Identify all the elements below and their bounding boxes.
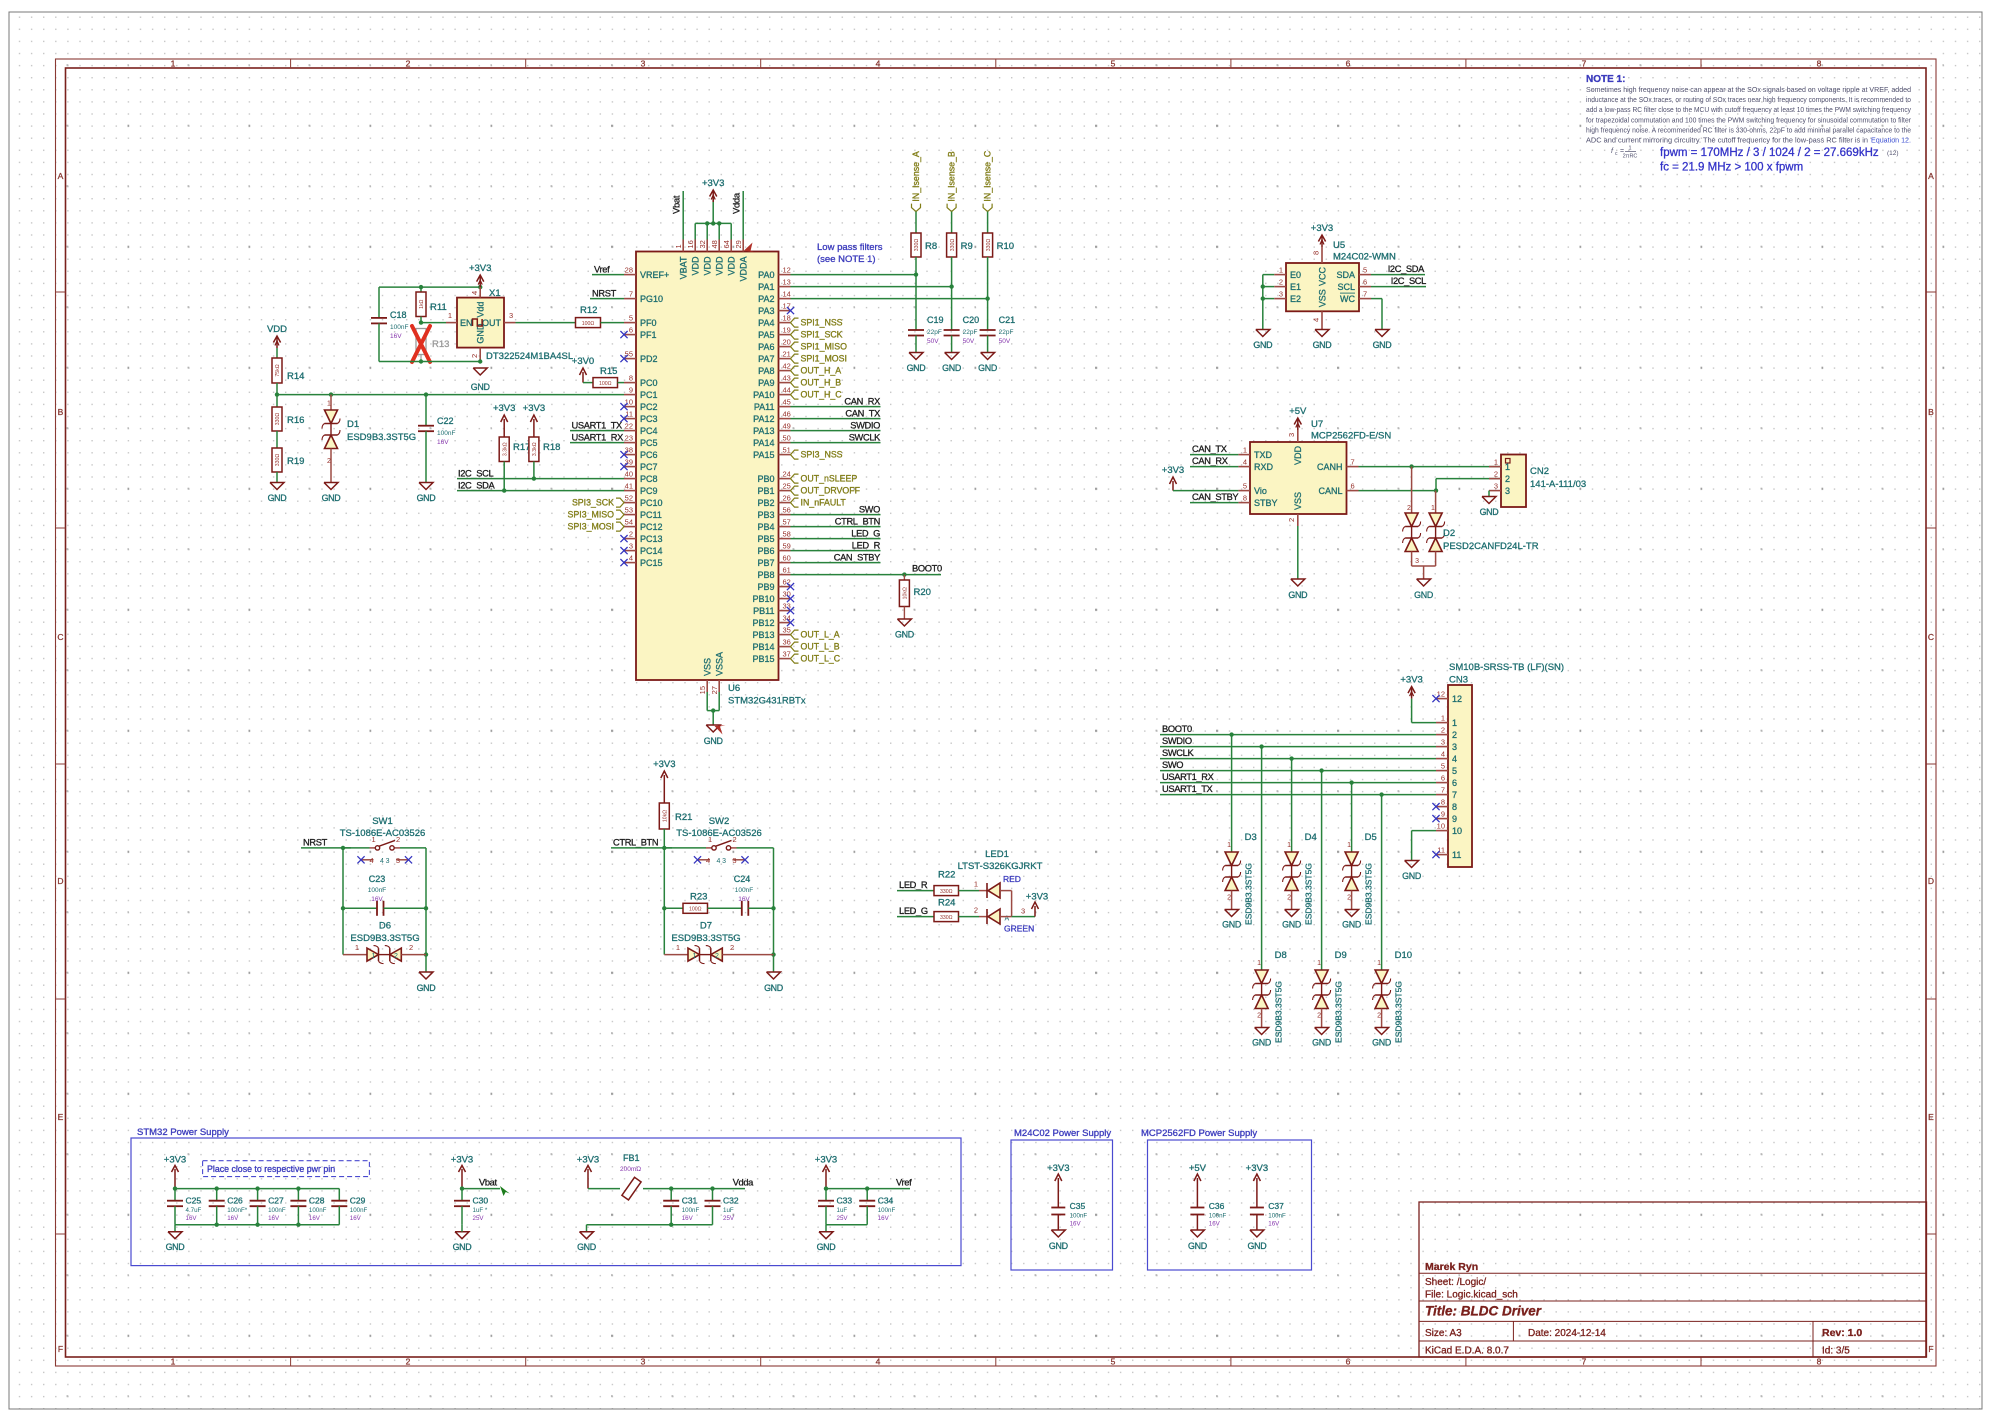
svg-text:STBY: STBY bbox=[1254, 498, 1278, 508]
svg-text:GND: GND bbox=[817, 1242, 836, 1252]
svg-text:3: 3 bbox=[641, 1357, 646, 1367]
net label Vdda bbox=[732, 192, 743, 214]
X1 pin 1 EN bbox=[446, 311, 473, 328]
svg-text:PB10: PB10 bbox=[752, 594, 774, 604]
svg-text:C30: C30 bbox=[473, 1196, 489, 1206]
svg-text:PA5: PA5 bbox=[758, 330, 774, 340]
svg-text:PB8: PB8 bbox=[757, 570, 774, 580]
wire SW1 right vertical bbox=[424, 848, 428, 972]
svg-text:4: 4 bbox=[380, 858, 384, 865]
svg-text:USART1_RX: USART1_RX bbox=[1162, 772, 1214, 782]
wire PA1 to R9 and C20 bbox=[791, 257, 954, 330]
title block size bbox=[1425, 1328, 1462, 1339]
svg-text:Title: BLDC Driver: Title: BLDC Driver bbox=[1425, 1304, 1542, 1319]
svg-text:LTST-S326KGJRKT: LTST-S326KGJRKT bbox=[958, 861, 1043, 872]
svg-text:SPI1_MOSI: SPI1_MOSI bbox=[801, 354, 847, 364]
svg-text:7: 7 bbox=[1351, 458, 1355, 467]
capacitor C18 bbox=[371, 287, 408, 361]
local label LED_G bbox=[897, 906, 934, 916]
svg-text:11: 11 bbox=[625, 410, 633, 419]
M24C02 power supply title bbox=[1014, 1128, 1111, 1139]
svg-text:FB1: FB1 bbox=[623, 1153, 640, 1163]
svg-text:LED_R: LED_R bbox=[852, 541, 881, 551]
svg-text:SPI3_SCK: SPI3_SCK bbox=[572, 498, 614, 508]
svg-text:ESD9B3.3ST5G: ESD9B3.3ST5G bbox=[350, 933, 419, 944]
hier label OUT_H_B bbox=[791, 378, 842, 388]
power symbol VDD bbox=[267, 324, 287, 358]
svg-text:+3V3: +3V3 bbox=[577, 1155, 599, 1166]
svg-text:GND: GND bbox=[417, 493, 436, 503]
svg-text:2: 2 bbox=[1441, 726, 1445, 735]
svg-text:41: 41 bbox=[625, 482, 633, 491]
svg-text:TS-1086E-AC03526: TS-1086E-AC03526 bbox=[340, 828, 426, 839]
svg-text:2: 2 bbox=[629, 530, 633, 539]
svg-text:LED_G: LED_G bbox=[851, 529, 880, 539]
ground symbol below R20 bbox=[895, 619, 914, 640]
svg-text:13: 13 bbox=[783, 278, 791, 287]
local label NRST at SW1 bbox=[301, 837, 351, 850]
svg-text:2: 2 bbox=[1407, 505, 1411, 512]
U5 pin 8 VCC bbox=[1312, 247, 1328, 286]
svg-text:ESD9B3.3ST5G: ESD9B3.3ST5G bbox=[347, 432, 416, 443]
svg-text:(see NOTE 1): (see NOTE 1) bbox=[817, 254, 876, 265]
CN2 reference and value bbox=[1530, 466, 1586, 490]
svg-text:SPI3_NSS: SPI3_NSS bbox=[801, 450, 843, 460]
title block file bbox=[1425, 1290, 1518, 1301]
svg-text:CAN_RX: CAN_RX bbox=[844, 397, 880, 407]
svg-text:+3V3: +3V3 bbox=[164, 1155, 186, 1166]
svg-text:100nF: 100nF bbox=[1209, 1213, 1227, 1220]
ground symbol below D1 bbox=[322, 483, 341, 504]
ground symbol below E pins bbox=[1253, 330, 1272, 351]
svg-text:SPI3_MOSI: SPI3_MOSI bbox=[568, 522, 614, 532]
svg-text:3: 3 bbox=[732, 856, 736, 865]
svg-text:21: 21 bbox=[783, 350, 791, 359]
svg-text:R19: R19 bbox=[287, 456, 304, 467]
svg-text:GND: GND bbox=[453, 1242, 472, 1252]
svg-text:PA15: PA15 bbox=[753, 450, 774, 460]
svg-text:PC6: PC6 bbox=[640, 450, 658, 460]
svg-text:D1: D1 bbox=[347, 419, 359, 430]
svg-text:Sometimes high frequency no: Sometimes high frequency noise can appea… bbox=[1586, 85, 1911, 94]
title block kicad version bbox=[1425, 1346, 1509, 1357]
svg-text:ESD9B3.3ST5G: ESD9B3.3ST5G bbox=[1334, 981, 1344, 1043]
svg-text:4: 4 bbox=[706, 856, 710, 865]
svg-text:PA0: PA0 bbox=[758, 270, 774, 280]
svg-text:SCL: SCL bbox=[1337, 282, 1355, 292]
svg-text:5: 5 bbox=[1243, 482, 1247, 491]
U7 left pins TXD RXD Vio STBY bbox=[1238, 446, 1277, 508]
power symbol +3V3 at R17 bbox=[493, 403, 515, 437]
svg-text:GND: GND bbox=[1402, 871, 1421, 881]
svg-text:I2C_SCL: I2C_SCL bbox=[458, 469, 493, 479]
svg-text:75kΩ: 75kΩ bbox=[275, 364, 281, 376]
svg-text:PA13: PA13 bbox=[753, 426, 774, 436]
svg-text:R16: R16 bbox=[287, 415, 304, 426]
svg-text:330Ω: 330Ω bbox=[940, 915, 953, 921]
svg-text:3: 3 bbox=[396, 856, 400, 865]
ground symbol below C33 bbox=[817, 1232, 836, 1252]
svg-text:1: 1 bbox=[1505, 462, 1510, 472]
LED1 red element bbox=[974, 880, 1012, 898]
local label BOOT0 bbox=[912, 564, 942, 574]
title block sheet bbox=[1425, 1277, 1486, 1288]
svg-text:2: 2 bbox=[1494, 470, 1498, 479]
svg-text:2: 2 bbox=[406, 1357, 411, 1367]
switch SW2 TS-1086E-AC03526 bbox=[664, 835, 773, 865]
svg-text:RED: RED bbox=[1003, 874, 1021, 884]
ground symbol below D4 bbox=[1282, 910, 1301, 930]
wire PA2 to R10 and C21 bbox=[791, 257, 990, 330]
svg-text:14: 14 bbox=[783, 290, 791, 299]
note small formula bbox=[1611, 146, 1637, 160]
svg-text:60: 60 bbox=[783, 554, 791, 563]
svg-text:C36: C36 bbox=[1209, 1201, 1225, 1211]
svg-text:54: 54 bbox=[625, 518, 633, 527]
svg-text:24: 24 bbox=[783, 470, 791, 479]
svg-text:+5V: +5V bbox=[1189, 1163, 1207, 1174]
svg-text:2: 2 bbox=[327, 458, 331, 465]
U6 top power pins VBAT VDD VDDA bbox=[674, 240, 748, 282]
ground symbol below U6 bbox=[704, 725, 723, 746]
svg-text:E1: E1 bbox=[1290, 282, 1301, 292]
local label CAN_TX at U7 bbox=[1190, 444, 1238, 455]
svg-text:Vdda: Vdda bbox=[732, 192, 743, 214]
svg-text:PB15: PB15 bbox=[752, 654, 774, 664]
svg-text:Vbat: Vbat bbox=[672, 195, 683, 214]
svg-text:9: 9 bbox=[1452, 814, 1457, 824]
svg-text:PA1: PA1 bbox=[758, 282, 774, 292]
resistor R20 bbox=[899, 575, 931, 619]
resistor R13 DNP bbox=[412, 326, 449, 362]
svg-text:I2C_SDA: I2C_SDA bbox=[458, 481, 495, 491]
title block title bbox=[1425, 1304, 1542, 1319]
svg-text:USART1_TX: USART1_TX bbox=[1162, 784, 1213, 794]
svg-text:50: 50 bbox=[783, 434, 791, 443]
power symbol +3V3 at FB1 bbox=[577, 1155, 599, 1189]
ESD diode D8 bbox=[1253, 747, 1287, 1043]
wire SW2 left vertical bbox=[662, 848, 666, 955]
svg-text:+3V3: +3V3 bbox=[523, 403, 545, 414]
svg-text:CAN_STBY: CAN_STBY bbox=[834, 553, 880, 563]
ESD diode D1 bbox=[322, 395, 416, 483]
wire IN_Isense_B to R9 bbox=[951, 212, 953, 233]
svg-text:330Ω: 330Ω bbox=[914, 239, 920, 252]
svg-text:PA8: PA8 bbox=[758, 366, 774, 376]
svg-text:SM10B-SRSS-TB (LF)(SN): SM10B-SRSS-TB (LF)(SN) bbox=[1449, 662, 1564, 673]
svg-text:100nF: 100nF bbox=[437, 430, 455, 437]
svg-text:50V: 50V bbox=[999, 338, 1011, 345]
wire PC1 net bbox=[275, 392, 624, 396]
svg-text:PG10: PG10 bbox=[640, 294, 663, 304]
title block id bbox=[1822, 1346, 1850, 1357]
capacitor C30 bbox=[454, 1189, 488, 1225]
hier label OUT_L_A bbox=[791, 630, 840, 640]
svg-text:6: 6 bbox=[1346, 1357, 1351, 1367]
ground symbol below C19 bbox=[907, 353, 926, 374]
svg-text:1: 1 bbox=[171, 1357, 176, 1367]
local label LED_R bbox=[897, 880, 934, 890]
svg-text:330Ω: 330Ω bbox=[275, 413, 281, 426]
wire CANL to CN2 pin 2 bbox=[1359, 479, 1502, 493]
wire VDD rail to +3V3 bbox=[695, 199, 731, 240]
title block rev bbox=[1822, 1327, 1862, 1339]
svg-text:VSSA: VSSA bbox=[714, 652, 724, 676]
svg-text:5: 5 bbox=[1111, 59, 1116, 69]
local label CAN_RX at U6 bbox=[791, 397, 881, 407]
resistor R9 bbox=[947, 233, 973, 257]
svg-text:TXD: TXD bbox=[1254, 450, 1273, 460]
svg-text:16V: 16V bbox=[1268, 1221, 1280, 1228]
svg-text:1: 1 bbox=[1494, 458, 1498, 467]
local label USART1_RX bbox=[570, 433, 624, 443]
svg-text:36: 36 bbox=[783, 638, 791, 647]
svg-text:16V: 16V bbox=[738, 896, 750, 903]
svg-text:8: 8 bbox=[1243, 494, 1247, 503]
svg-text:E2: E2 bbox=[1290, 294, 1301, 304]
hier label SPI1_MOSI bbox=[791, 354, 847, 364]
svg-text:VSS: VSS bbox=[1318, 289, 1328, 307]
svg-text:Rev: 1.0: Rev: 1.0 bbox=[1822, 1327, 1862, 1339]
resistor R17 bbox=[499, 437, 530, 491]
svg-text:PF0: PF0 bbox=[640, 318, 657, 328]
svg-text:Place close to respective pwr: Place close to respective pwr pin bbox=[207, 1164, 335, 1174]
svg-text:35: 35 bbox=[783, 626, 791, 635]
capacitor C20 bbox=[944, 315, 980, 353]
svg-text:D2: D2 bbox=[1443, 528, 1455, 539]
svg-text:C23: C23 bbox=[369, 874, 386, 884]
svg-text:100Ω: 100Ω bbox=[689, 907, 702, 913]
svg-text:R20: R20 bbox=[914, 587, 931, 598]
svg-text:STM32G431RBTx: STM32G431RBTx bbox=[728, 696, 806, 707]
wire SW2 right vertical bbox=[771, 848, 775, 972]
svg-text:1: 1 bbox=[693, 953, 697, 960]
svg-text:GND: GND bbox=[704, 736, 723, 746]
svg-text:ESD9B3.3ST5G: ESD9B3.3ST5G bbox=[1274, 981, 1284, 1043]
svg-text:2: 2 bbox=[715, 953, 719, 960]
wire +3V3 to CN3 pin 1 bbox=[1412, 699, 1436, 723]
svg-text:1: 1 bbox=[1628, 146, 1631, 152]
svg-text:100nF: 100nF bbox=[390, 324, 408, 331]
svg-text:PC9: PC9 bbox=[640, 486, 658, 496]
svg-text:PB5: PB5 bbox=[757, 534, 774, 544]
svg-text:GND: GND bbox=[1252, 1038, 1271, 1048]
capacitor C33 bbox=[818, 1189, 852, 1225]
svg-text:PC13: PC13 bbox=[640, 534, 663, 544]
local label Vdda bbox=[733, 1178, 754, 1188]
capacitor C34 bbox=[859, 1189, 895, 1225]
ESD diode D5 bbox=[1343, 783, 1377, 925]
svg-text:C22: C22 bbox=[437, 416, 454, 426]
svg-text:1: 1 bbox=[1227, 842, 1231, 849]
CN3 pins 1-12 bbox=[1432, 690, 1462, 861]
svg-text:Vdd: Vdd bbox=[476, 302, 486, 318]
U6 reference and value text bbox=[728, 683, 806, 707]
svg-text:2: 2 bbox=[406, 59, 411, 69]
capacitor C35 bbox=[1051, 1201, 1087, 1230]
hier label OUT_DRVOFF bbox=[791, 486, 861, 496]
ground symbol below C35 bbox=[1049, 1230, 1068, 1251]
X1 pin 2 GND bbox=[470, 323, 486, 361]
svg-text:R9: R9 bbox=[961, 241, 973, 252]
svg-text:5: 5 bbox=[629, 314, 633, 323]
svg-text:IN_Isense_B: IN_Isense_B bbox=[947, 151, 957, 201]
power symbol +3V3 at C25 bbox=[164, 1155, 186, 1189]
svg-text:Vref: Vref bbox=[896, 1178, 912, 1188]
svg-text:PC15: PC15 bbox=[640, 558, 663, 568]
svg-text:fpwm = 170MHz / 3 / 1024 / 2 =: fpwm = 170MHz / 3 / 1024 / 2 = 27.669kHz bbox=[1660, 147, 1879, 159]
svg-text:CAN_TX: CAN_TX bbox=[1192, 444, 1227, 454]
note formula fc bbox=[1660, 162, 1803, 174]
svg-text:2: 2 bbox=[1257, 1013, 1261, 1020]
svg-text:OUT_H_A: OUT_H_A bbox=[801, 366, 842, 376]
svg-text:GND: GND bbox=[907, 363, 926, 373]
ground symbol below D8 bbox=[1252, 1028, 1271, 1048]
svg-text:Id: 3/5: Id: 3/5 bbox=[1822, 1346, 1850, 1357]
svg-text:5: 5 bbox=[1452, 766, 1457, 776]
note formula fpwm bbox=[1660, 147, 1899, 159]
U5 reference and value bbox=[1333, 240, 1396, 263]
svg-text:PD2: PD2 bbox=[640, 354, 658, 364]
ESD diode D4 bbox=[1283, 759, 1317, 925]
U7 pin 3 VDD bbox=[1287, 430, 1303, 465]
capacitor C36 bbox=[1190, 1201, 1226, 1230]
resistor R18 bbox=[529, 437, 561, 479]
svg-text:PA9: PA9 bbox=[758, 378, 774, 388]
ground symbol below C36 bbox=[1188, 1230, 1207, 1251]
svg-text:BOOT0: BOOT0 bbox=[912, 564, 942, 574]
hier label SPI1_NSS bbox=[791, 318, 843, 328]
svg-text:GND: GND bbox=[1247, 1241, 1266, 1251]
resistor R11 bbox=[416, 287, 447, 323]
svg-text:+3V0: +3V0 bbox=[572, 356, 594, 367]
svg-text:16V: 16V bbox=[371, 896, 383, 903]
svg-text:22pF: 22pF bbox=[999, 329, 1014, 336]
capacitor C22 bbox=[418, 395, 455, 483]
wire CN2 pin 3 to ground bbox=[1488, 491, 1490, 497]
svg-text:10: 10 bbox=[1437, 822, 1445, 831]
svg-text:27: 27 bbox=[710, 686, 719, 694]
svg-text:PC0: PC0 bbox=[640, 378, 658, 388]
svg-text:SW2: SW2 bbox=[709, 816, 730, 827]
svg-text:3.3kΩ: 3.3kΩ bbox=[532, 442, 538, 456]
svg-text:29: 29 bbox=[734, 240, 743, 248]
svg-text:6: 6 bbox=[1363, 278, 1367, 287]
svg-text:1: 1 bbox=[1243, 446, 1247, 455]
svg-text:SPI1_SCK: SPI1_SCK bbox=[801, 330, 843, 340]
svg-text:GND: GND bbox=[1253, 340, 1272, 350]
svg-text:1: 1 bbox=[974, 880, 978, 889]
svg-text:PC2: PC2 bbox=[640, 402, 658, 412]
local label USART1_TX at CN3 bbox=[1160, 784, 1436, 797]
svg-text:R24: R24 bbox=[938, 898, 955, 909]
ground symbol below C30 bbox=[453, 1225, 472, 1252]
svg-text:D: D bbox=[1928, 876, 1934, 886]
svg-text:58: 58 bbox=[783, 530, 791, 539]
ESD diode D2 PESD2CANFD24L-TR bbox=[1403, 467, 1539, 579]
MCP2562FD power supply title bbox=[1141, 1128, 1257, 1139]
svg-text:50V: 50V bbox=[927, 338, 939, 345]
ground symbol below D5 bbox=[1342, 910, 1361, 930]
svg-text:+3V3: +3V3 bbox=[1162, 465, 1184, 476]
local label I2C_SDA at U5 bbox=[1371, 264, 1425, 275]
svg-text:5: 5 bbox=[1111, 1357, 1116, 1367]
svg-text:3: 3 bbox=[641, 59, 646, 69]
CAN transceiver U7 MCP2562FD-E/SN body bbox=[1250, 442, 1347, 514]
local label USART1_TX bbox=[570, 421, 624, 431]
X1 clock glyph bbox=[473, 319, 483, 326]
svg-text:9: 9 bbox=[1441, 810, 1445, 819]
svg-text:2πRC: 2πRC bbox=[1623, 154, 1638, 160]
svg-text:GND: GND bbox=[895, 630, 914, 640]
svg-text:2: 2 bbox=[1279, 278, 1283, 287]
capacitor C32 bbox=[705, 1189, 739, 1225]
svg-text:M24C02 Power Supply: M24C02 Power Supply bbox=[1014, 1128, 1111, 1139]
svg-text:STM32 Power Supply: STM32 Power Supply bbox=[137, 1127, 229, 1138]
ground symbol below U7 bbox=[1288, 579, 1307, 600]
svg-text:100Ω: 100Ω bbox=[582, 321, 595, 327]
svg-text:3: 3 bbox=[1287, 433, 1296, 437]
svg-text:PESD2CANFD24L-TR: PESD2CANFD24L-TR bbox=[1443, 541, 1539, 552]
svg-text:GND: GND bbox=[268, 493, 287, 503]
svg-text:LED1: LED1 bbox=[985, 849, 1009, 860]
svg-text:VDD: VDD bbox=[702, 256, 712, 276]
svg-text:PC5: PC5 bbox=[640, 438, 658, 448]
svg-text:64: 64 bbox=[722, 240, 731, 248]
local label LED_G at U6 bbox=[791, 529, 881, 539]
svg-text:GND: GND bbox=[1372, 1038, 1391, 1048]
svg-text:100nF: 100nF bbox=[350, 1207, 368, 1214]
svg-text:PB0: PB0 bbox=[757, 474, 774, 484]
svg-text:3: 3 bbox=[1452, 742, 1457, 752]
svg-text:GND: GND bbox=[166, 1242, 185, 1252]
svg-text:R15: R15 bbox=[600, 366, 617, 377]
svg-text:R21: R21 bbox=[675, 812, 692, 823]
svg-text:B: B bbox=[1928, 407, 1934, 417]
power symbol +3V3 at C35 bbox=[1047, 1163, 1069, 1208]
svg-text:2: 2 bbox=[1287, 895, 1291, 902]
svg-text:CAN_TX: CAN_TX bbox=[845, 409, 880, 419]
svg-text:4.7uF: 4.7uF bbox=[186, 1207, 202, 1214]
svg-text:GND: GND bbox=[1288, 590, 1307, 600]
note RED bbox=[1003, 874, 1021, 884]
local label SWCLK at CN3 bbox=[1160, 748, 1436, 761]
power symbol +3V3 at R18 bbox=[523, 403, 545, 437]
svg-text:15: 15 bbox=[698, 686, 707, 694]
svg-text:8: 8 bbox=[1817, 1357, 1822, 1367]
svg-text:PB13: PB13 bbox=[752, 630, 774, 640]
hier label OUT_L_C bbox=[791, 654, 841, 664]
wire X1 GND rail bbox=[379, 359, 482, 363]
title block date bbox=[1528, 1328, 1606, 1339]
svg-text:22pF: 22pF bbox=[927, 329, 942, 336]
CN3 reference bbox=[1449, 675, 1468, 686]
svg-text:E0: E0 bbox=[1290, 270, 1301, 280]
ground symbol below SW1 bbox=[417, 972, 436, 993]
wire ground rail C31-C32 bbox=[587, 1223, 713, 1232]
svg-text:100nF: 100nF bbox=[368, 887, 386, 894]
svg-text:330Ω: 330Ω bbox=[940, 889, 953, 895]
svg-text:VDD: VDD bbox=[1293, 446, 1303, 466]
U6 left pins PG10/PF/PD/PC with pin numbers and names bbox=[620, 266, 669, 568]
svg-text:PB6: PB6 bbox=[757, 546, 774, 556]
svg-text:VSS: VSS bbox=[1293, 492, 1303, 510]
power symbol +3V3 above U6 bbox=[702, 178, 724, 202]
svg-text:PC7: PC7 bbox=[640, 462, 658, 472]
CN3 value SM10B-SRSS-TB bbox=[1449, 662, 1564, 673]
svg-text:C24: C24 bbox=[734, 874, 751, 884]
power symbol +3V3 at CN3 bbox=[1400, 675, 1422, 699]
